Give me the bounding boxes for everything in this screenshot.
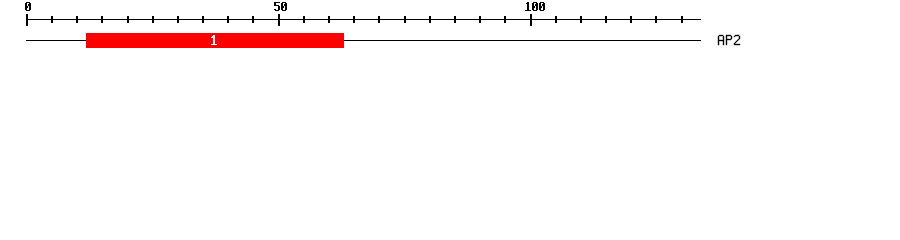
ruler label 0: [25, 2, 31, 11]
ruler major tick at 50: [278, 14, 280, 26]
sequence name AP2: [718, 35, 740, 45]
background: [0, 0, 900, 58]
sequence line: [26, 40, 701, 41]
ruler label 100: [525, 2, 545, 11]
ruler major tick at 100: [530, 14, 532, 26]
domain label 1 (white): [211, 35, 217, 45]
ruler major tick at 0: [26, 14, 28, 26]
ruler minor ticks (every 5 residues): [51, 16, 683, 23]
ruler axis line: [26, 19, 701, 20]
ruler label 50: [274, 2, 287, 11]
domain box 1 (red): [86, 33, 344, 48]
